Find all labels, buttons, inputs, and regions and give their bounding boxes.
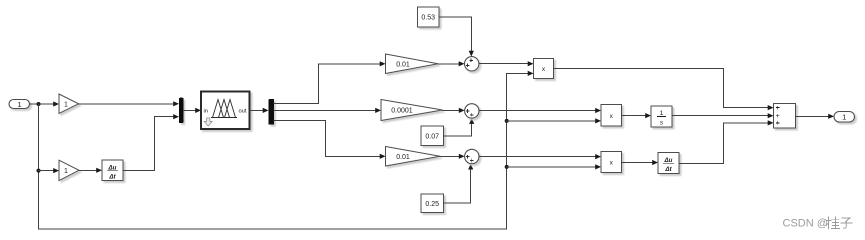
wire junction D to product x3 lower input: [507, 166, 596, 168]
svg-text:in: in: [204, 109, 209, 115]
watermark glyph zi: [841, 218, 852, 228]
wire demux out1 to gain 0.01 row1: [274, 64, 380, 104]
svg-text:0.07: 0.07: [425, 133, 439, 140]
derivative block du/dt (left): [102, 160, 123, 181]
svg-text:out: out: [238, 109, 246, 115]
wire In1 to gain1: [30, 103, 54, 105]
gain block 1 (value 1): [59, 94, 79, 114]
product block x3: [601, 152, 622, 173]
fuzzy icon membership triangles: [212, 100, 237, 118]
wire junction B to gain2: [39, 170, 54, 172]
wire sum3 to product x3: [479, 156, 595, 158]
wire sum2 to product x2: [479, 110, 595, 112]
wire gain Ki to sum2: [443, 109, 459, 111]
wire sum1 to product x1: [479, 63, 528, 65]
svg-text:0.0001: 0.0001: [391, 108, 413, 115]
wire demux out2 to gain 0.0001: [274, 109, 375, 111]
watermark glyph gui: [826, 217, 839, 229]
svg-text:1: 1: [660, 110, 664, 117]
constant block 0.07: [421, 126, 444, 146]
wire junction C to product x2 lower input: [507, 120, 596, 122]
wire fuzzy to demux: [250, 109, 263, 111]
wire gain1 to mux port1: [79, 103, 174, 105]
node junction B (gain2 branch): [37, 169, 41, 173]
wire 0.25 to sum3: [444, 170, 471, 204]
wire trunk down from junction A: [38, 104, 40, 229]
constant block 0.25: [421, 194, 444, 213]
node junction A: [37, 102, 41, 106]
gain block Kd 0.01: [386, 147, 441, 167]
sum block 2 (circle): [465, 104, 479, 118]
demux block (bar): [269, 99, 275, 125]
wire gain Kp to sum1: [438, 63, 459, 65]
svg-text:Δt: Δt: [108, 174, 116, 181]
wire final sum to output port: [796, 115, 829, 117]
product block x2: [601, 105, 622, 127]
input port In1: [9, 100, 30, 109]
output port Out1: [834, 112, 855, 123]
fuzzy logic controller block U1: [201, 92, 250, 130]
svg-text:0.25: 0.25: [425, 201, 439, 208]
svg-text:1: 1: [18, 100, 22, 109]
derivative block du/dt (right): [658, 153, 679, 174]
sum block 1 (circle): [465, 57, 479, 71]
svg-text:Δt: Δt: [664, 166, 672, 173]
wire gain2 to derivative block: [79, 169, 97, 171]
wire x3 to derivative2: [622, 162, 653, 164]
svg-text:1: 1: [64, 102, 68, 109]
integrator block 1/s: [651, 106, 672, 127]
gain block 2 (value 1): [59, 160, 79, 180]
product block x1: [534, 58, 554, 78]
wire 0.07 to sum2: [444, 124, 472, 136]
gain block Ki 0.0001: [381, 100, 443, 121]
wire integrator to final sum: [672, 115, 768, 117]
svg-text:CSDN @: CSDN @: [783, 218, 828, 230]
svg-text:1: 1: [64, 168, 68, 175]
wire mux to fuzzy controller: [184, 109, 196, 111]
svg-text:Δu: Δu: [664, 157, 673, 164]
final sum block (rectangular add): [774, 104, 796, 128]
svg-text:0.01: 0.01: [396, 61, 410, 68]
node junction D (feedback to x3): [505, 165, 509, 169]
gain block Kp 0.01: [386, 54, 439, 74]
wire feedback bottom (junction A to product x1 lower input): [39, 73, 528, 229]
constant block 0.53: [418, 7, 440, 27]
mux block (bar): [179, 98, 184, 123]
sum block 3 (circle): [465, 149, 479, 163]
wire x2 to integrator: [622, 115, 646, 117]
wire du/dt to mux port2: [123, 117, 173, 171]
wire 0.53 to sum1: [439, 17, 471, 51]
wire gain Kd to sum3: [440, 155, 459, 157]
svg-text:0.53: 0.53: [421, 15, 435, 22]
svg-text:0.01: 0.01: [396, 154, 410, 161]
svg-text:Δu: Δu: [108, 164, 117, 171]
wire derivative2 to final sum (bottom path): [679, 123, 768, 163]
wire demux out3 to gain 0.01 row3: [274, 120, 380, 156]
wire x1 to final sum (top path): [554, 68, 768, 107]
node junction C (feedback to x2): [505, 119, 509, 123]
fuzzy icon gray arrow: [204, 118, 212, 126]
svg-text:1: 1: [842, 113, 846, 122]
